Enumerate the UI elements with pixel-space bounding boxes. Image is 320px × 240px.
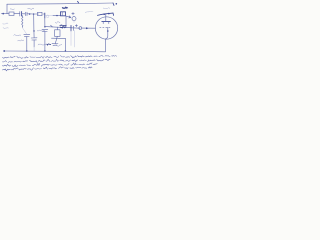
wire R4 bottom to ground: [55, 36, 57, 43]
node dot on wire: [56, 15, 57, 16]
anode bar: [102, 20, 111, 22]
capacitor C3 bars: [24, 33, 30, 35]
node dot b: [33, 13, 34, 14]
wire R2 out: [43, 13, 45, 15]
resistor R4 box: [55, 30, 60, 37]
node plus mark upper: [72, 12, 74, 14]
wire C4 stem: [33, 40, 35, 47]
handwritten caption block: [3, 57, 9, 58]
node ring on wire right: [79, 27, 82, 30]
capacitor C4 bars: [31, 37, 37, 39]
jack circle: [72, 17, 76, 21]
node top-right terminal tick: [113, 3, 114, 5]
component box T1: [61, 12, 66, 16]
node cathode dot: [107, 30, 109, 32]
wire cathode lead down: [104, 39, 106, 52]
wire horizontal y38: [52, 37, 66, 39]
wire left riser: [6, 4, 8, 13]
node anode dots: [103, 13, 105, 15]
node plus mark: [75, 25, 77, 27]
wire to box: [53, 15, 61, 17]
wire R4 top stub: [56, 27, 58, 30]
resistor R3 zigzag vertical: [22, 15, 23, 27]
node dot a: [29, 13, 31, 15]
wire mid to right cluster: [58, 27, 81, 28]
node thick bar: [44, 13, 46, 18]
wire grid leak vertical: [33, 14, 35, 37]
capacitor C2: [24, 12, 26, 15]
node rail junction 2: [44, 50, 46, 52]
wire C2 to junction: [27, 13, 39, 15]
resistor R1 box: [9, 12, 14, 15]
capacitor C6 cross bar: [70, 25, 72, 31]
capacitor C1: [19, 12, 21, 16]
wire mid horizontal: [45, 26, 58, 29]
wire bottom rail: [4, 50, 105, 53]
wire drop to rail: [64, 38, 66, 51]
node mid junction dot: [44, 26, 46, 28]
node tick above top wire: [78, 1, 79, 3]
wire light vertical guides: [70, 31, 72, 46]
wire box lead down: [65, 17, 67, 28]
node arrow head: [86, 27, 89, 29]
tube V1 envelope: [95, 17, 117, 39]
wire anode top lead: [105, 14, 107, 21]
wire R3 to C3: [22, 28, 26, 34]
ground bars: [52, 43, 58, 45]
wire arrow to jack: [66, 16, 71, 18]
node rail junction 1: [26, 50, 28, 52]
wire cathode: [106, 27, 108, 39]
grid dashes: [100, 26, 112, 28]
labels (component values): [10, 9, 15, 10]
wire grid lead: [82, 27, 96, 29]
wire C3 stem to rail: [26, 37, 28, 51]
node top-right dot: [116, 3, 118, 5]
node small circle: [46, 15, 49, 18]
wire faint to box: [46, 15, 54, 17]
wire drop to mid wire: [44, 18, 46, 27]
wire C5 stem to rail: [44, 32, 46, 51]
node rail junction 3: [65, 50, 67, 52]
capacitor C5 bars: [42, 28, 48, 30]
wire input lead: [1, 13, 9, 15]
wire anode feed: [98, 13, 114, 15]
wire C1 to C2: [22, 13, 25, 15]
resistor R2 box: [38, 12, 43, 15]
node input terminal: [2, 13, 4, 15]
wire R1 to C1: [14, 13, 20, 15]
node small dot: [33, 30, 34, 31]
wire arrow on mid: [51, 25, 53, 27]
node rail left terminal: [3, 50, 5, 52]
wire top long rail: [7, 3, 113, 4]
